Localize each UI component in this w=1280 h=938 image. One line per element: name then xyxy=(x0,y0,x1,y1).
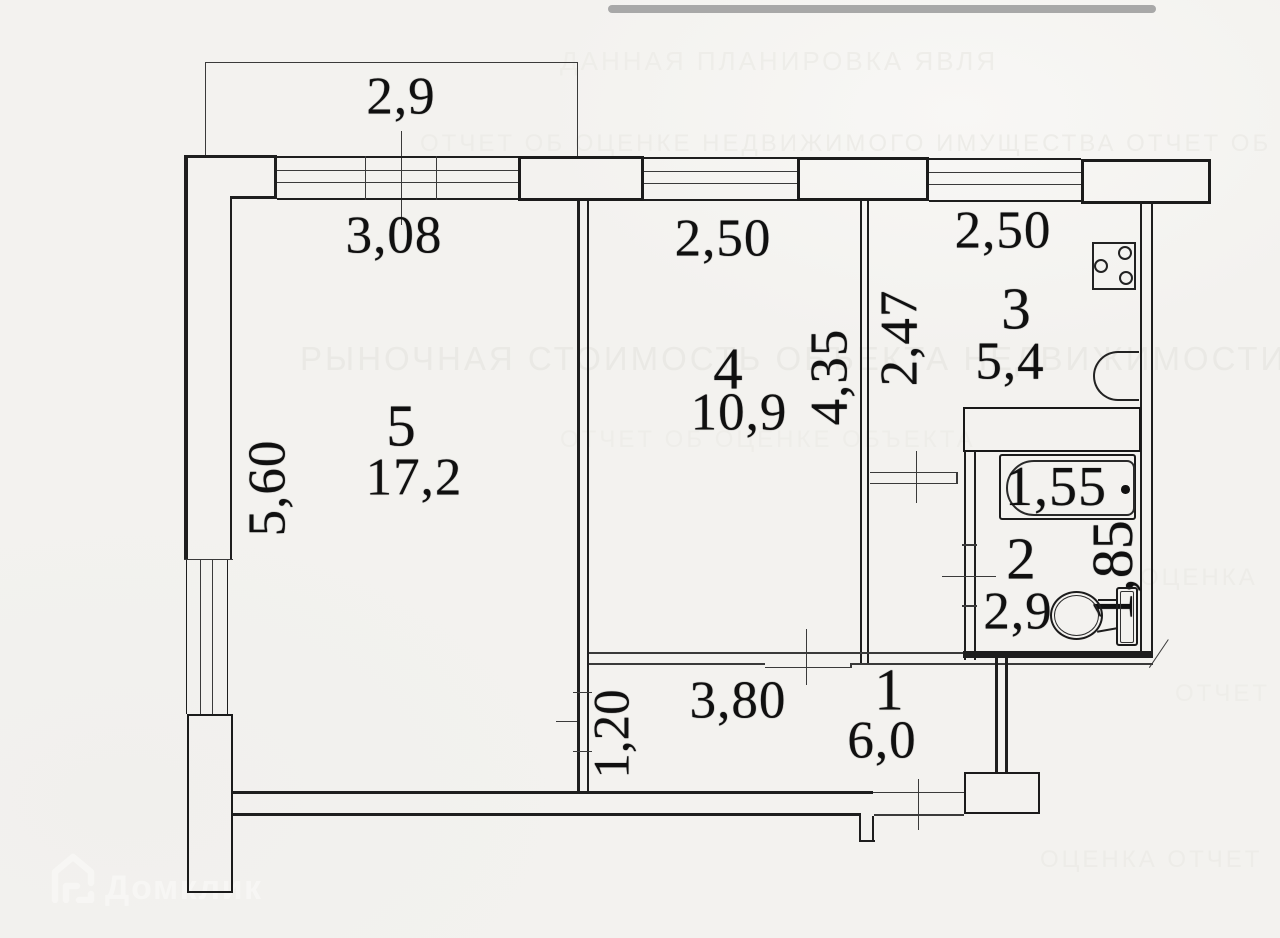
stub tick xyxy=(916,451,917,503)
window 1 (3,08) xyxy=(277,156,518,158)
toilet tank xyxy=(1116,587,1138,646)
window 1 tick b xyxy=(436,156,437,200)
wall below bathroom line a xyxy=(995,658,997,772)
room4 bottom wall line a xyxy=(589,652,964,654)
faint watermark text rows xyxy=(560,48,998,74)
room4 right wall line b xyxy=(867,201,869,664)
bathroom room 2 label xyxy=(1006,530,1036,589)
stub wall end cap xyxy=(956,472,958,484)
label 2,50 kitchen window xyxy=(955,205,1052,258)
entrance dim tick xyxy=(918,779,919,830)
toilet bowl inner xyxy=(1054,595,1099,636)
room4 bottom wall line b right xyxy=(851,663,1153,665)
label 2,47 corridor xyxy=(874,290,927,387)
stove burner 2 xyxy=(1094,259,1108,273)
hall room 1 label xyxy=(874,661,904,720)
balcony left wire xyxy=(205,62,206,156)
stub wall bottom line xyxy=(870,483,958,485)
toilet bowl outer xyxy=(1050,591,1103,640)
bathroom bottom wall thick xyxy=(963,651,1153,658)
kitchen sink xyxy=(1093,351,1139,402)
kitchen right wall inner xyxy=(1140,201,1143,658)
left wall outer xyxy=(184,155,188,560)
interior wall room5|room4 line a xyxy=(577,201,580,791)
room4 right wall line a xyxy=(860,201,863,664)
tick on room4 bottom wall xyxy=(806,629,807,685)
bathroom top band xyxy=(963,407,1141,452)
hall area 6,0 xyxy=(847,715,916,768)
window 3 (kitchen 2,50) xyxy=(929,158,1081,160)
room 4 label xyxy=(713,339,743,398)
bathroom left wall line a xyxy=(964,451,967,660)
toilet neck top xyxy=(1098,599,1117,601)
bathtub outer xyxy=(999,454,1136,521)
corner diagonal tick xyxy=(1149,639,1169,668)
kitchen room 3 label xyxy=(1001,280,1031,339)
bathroom left wall line b xyxy=(974,451,976,660)
stub wall top line xyxy=(870,472,958,474)
domclick house icon xyxy=(46,849,100,903)
room4 door threshold xyxy=(765,667,851,669)
bathtub dot xyxy=(1121,485,1130,494)
bathtub label 1,55 xyxy=(1005,459,1107,515)
door notch bottom xyxy=(859,840,875,842)
top wall: pier 4 (right corner) xyxy=(1081,159,1211,204)
tick on wall lower xyxy=(573,751,592,752)
gray scale bar top xyxy=(608,5,1156,13)
top wall: pier 1 (corner) xyxy=(184,155,277,158)
room4 door jamb xyxy=(850,663,852,668)
stove xyxy=(1092,242,1137,291)
window 1 tick a xyxy=(365,156,366,200)
toilet neck bottom xyxy=(1097,627,1117,632)
left wall bottom block xyxy=(187,714,233,893)
label 2,9 balcony xyxy=(366,71,435,124)
bottom wall top thick xyxy=(233,791,873,794)
label 1,85 xyxy=(1084,520,1142,622)
left wall end cap xyxy=(184,559,233,561)
label 1,20 xyxy=(588,689,639,778)
stove burner 1 xyxy=(1118,246,1132,260)
kitchen right wall outer xyxy=(1151,201,1154,658)
dim pointer 1,20 xyxy=(556,721,577,722)
bath wall dash lower xyxy=(962,605,977,607)
bottom wall lower thick xyxy=(233,813,861,816)
interior wall room5|room4 line b xyxy=(587,201,589,791)
kitchen area 5,4 xyxy=(975,336,1044,389)
tick on wall upper xyxy=(573,692,592,693)
bath door dim tick xyxy=(942,576,996,577)
room 5 label xyxy=(386,397,416,456)
stove burner 3 xyxy=(1119,271,1133,285)
domclick text xyxy=(105,869,263,908)
label 5,60 xyxy=(242,440,295,537)
bath wall dash upper xyxy=(962,544,977,546)
room 4 area 10,9 xyxy=(691,387,788,440)
label 3,08 window xyxy=(346,210,443,263)
bottom wall top thin continuation xyxy=(873,792,964,793)
room4 bottom wall line b left xyxy=(589,663,765,665)
balcony outline xyxy=(205,62,578,63)
left window (5,60) xyxy=(186,560,188,714)
wall below bathroom line b xyxy=(1005,658,1007,772)
label 3,80 xyxy=(690,675,787,728)
label 4,35 xyxy=(804,329,857,426)
toilet tank inner xyxy=(1120,591,1134,643)
room 5 area 17,2 xyxy=(366,452,463,505)
dimension line 2,9 xyxy=(401,131,402,225)
left wall inner xyxy=(230,196,232,560)
door notch left xyxy=(859,813,861,842)
window 2 (2,50) xyxy=(644,157,797,159)
top wall: pier 2 xyxy=(518,156,644,201)
top wall: pier 3 xyxy=(797,157,929,201)
label 2,50 room4 window xyxy=(675,213,772,266)
bathtub inner xyxy=(1006,460,1135,516)
bathroom area 2,9 xyxy=(983,586,1052,639)
bottom wall lower thin continuation xyxy=(874,814,964,815)
balcony right wire xyxy=(577,62,578,156)
door notch right xyxy=(872,816,874,842)
entrance pier xyxy=(964,772,1040,814)
